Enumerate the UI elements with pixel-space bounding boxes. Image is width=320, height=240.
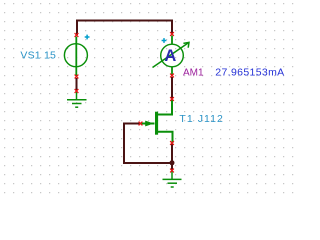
svg-text:T1 J112: T1 J112 [179, 113, 224, 125]
terminal cross ground 1 pin [75, 89, 79, 93]
terminal cross ground 2 pin [170, 169, 174, 173]
terminal cross AM1 minus pin [170, 74, 174, 78]
wire: T1 gate loop to source node [124, 124, 172, 164]
node: source junction [170, 160, 175, 165]
polarity plus of VS1 [85, 35, 90, 40]
wire: VS1 bottom to ground [76, 78, 78, 90]
terminal cross T1 source pin [170, 141, 174, 145]
ammeter AM1 [153, 36, 190, 75]
terminal cross AM1 plus pin [170, 32, 174, 36]
polarity plus of AM1 [162, 38, 167, 43]
terminal cross T1 drain pin [170, 97, 174, 101]
wire: T1 source to ground [171, 144, 173, 170]
terminal cross T1 gate pin [139, 122, 143, 126]
transistor T1 (N-JFET) [142, 100, 173, 144]
terminal cross VS1 minus pin [75, 75, 79, 79]
svg-text:VS1 15: VS1 15 [20, 49, 56, 61]
ground under VS1 [67, 92, 87, 107]
ground under source node [163, 172, 182, 188]
T1 gate lead [142, 123, 155, 125]
wire: VS1 top to AM1 top [77, 21, 172, 36]
T1 channel bar [155, 112, 158, 135]
wire: AM1 bottom to T1 drain [171, 77, 173, 99]
svg-text:AM1: AM1 [183, 68, 204, 79]
svg-text:A: A [164, 47, 176, 65]
T1 drain lead [158, 100, 173, 115]
voltage source VS1 [64, 37, 87, 77]
T1 source lead [158, 132, 173, 143]
terminal cross VS1 plus pin [75, 33, 79, 37]
svg-text:27.965153mA: 27.965153mA [215, 67, 284, 79]
T1 gate arrow [145, 121, 151, 127]
